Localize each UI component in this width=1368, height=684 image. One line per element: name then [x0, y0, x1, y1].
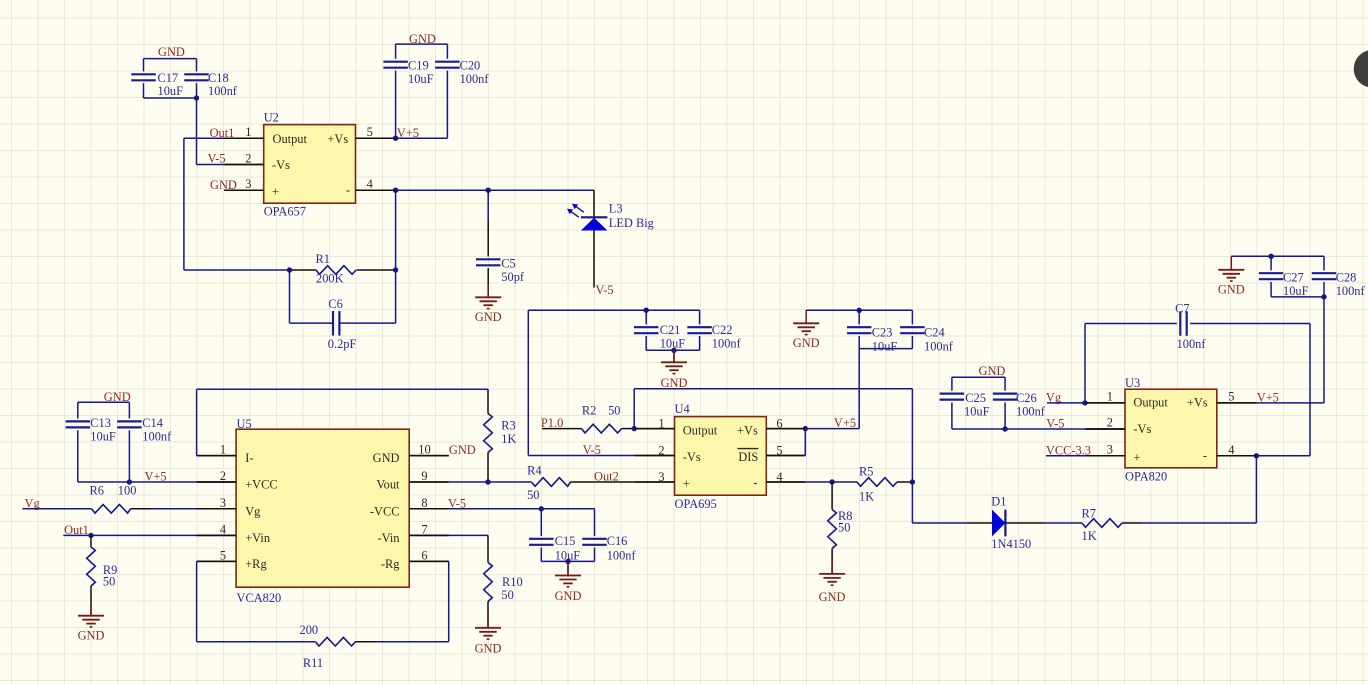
pin 6: [766, 428, 805, 430]
svg-text:C18: C18: [208, 71, 229, 85]
wire: [184, 138, 290, 270]
capacitor C7: [1085, 302, 1310, 403]
svg-text:GND: GND: [1218, 283, 1245, 297]
pin: [635, 481, 675, 483]
svg-text:+Rg: +Rg: [245, 557, 266, 571]
svg-text:5: 5: [1228, 389, 1234, 403]
resistor R4: [527, 464, 634, 503]
svg-text:U3: U3: [1125, 376, 1140, 390]
svg-text:R10: R10: [502, 575, 523, 589]
op-amp U5: [197, 417, 449, 605]
svg-text:1K: 1K: [859, 489, 874, 503]
svg-text:V-5: V-5: [208, 151, 226, 165]
resistor R8: [828, 482, 853, 574]
svg-text:R6: R6: [90, 483, 104, 497]
pin: [766, 455, 805, 457]
svg-text:10uF: 10uF: [90, 430, 116, 444]
svg-text:+: +: [683, 477, 690, 491]
svg-text:10uF: 10uF: [872, 340, 898, 354]
pin 5: [356, 137, 396, 139]
svg-text:V+5: V+5: [145, 470, 167, 484]
svg-text:D1: D1: [991, 494, 1006, 508]
svg-text:200K: 200K: [316, 272, 344, 286]
pin: [409, 534, 449, 536]
svg-text:4: 4: [220, 522, 226, 536]
wire: [1271, 294, 1327, 299]
node V-5: [583, 443, 601, 457]
svg-text:50: 50: [608, 404, 620, 418]
pin: [1086, 402, 1126, 404]
resistor R1: [290, 252, 396, 286]
svg-text:GND: GND: [78, 629, 105, 643]
wire: [197, 561, 316, 641]
svg-text:-Vs: -Vs: [272, 158, 290, 172]
wire: [1231, 255, 1324, 257]
svg-text:OPA695: OPA695: [675, 497, 717, 511]
wire: [396, 188, 594, 193]
svg-text:100nf: 100nf: [208, 84, 238, 98]
svg-text:100nf: 100nf: [924, 340, 954, 354]
pin: [224, 164, 264, 166]
node GND: [104, 390, 131, 404]
pin: [409, 481, 449, 483]
svg-text:V+5: V+5: [397, 126, 419, 140]
svg-text:GND: GND: [373, 451, 400, 465]
wire: [805, 479, 857, 484]
svg-text:-Vs: -Vs: [1133, 422, 1151, 436]
svg-text:+VCC: +VCC: [245, 478, 277, 492]
node GND: [210, 178, 237, 192]
svg-text:GND: GND: [819, 590, 846, 604]
svg-text:+Vs: +Vs: [1187, 396, 1208, 410]
svg-text:0.2pF: 0.2pF: [328, 337, 357, 351]
wire: [1254, 324, 1310, 459]
svg-text:R3: R3: [501, 419, 515, 433]
svg-text:50: 50: [838, 520, 850, 534]
svg-text:Output: Output: [683, 424, 718, 438]
capacitor C25: [940, 391, 990, 419]
svg-text:GND: GND: [979, 364, 1006, 378]
svg-text:C21: C21: [660, 323, 681, 337]
pin: [197, 508, 237, 510]
pin 2: [1086, 428, 1126, 430]
svg-text:50pf: 50pf: [501, 270, 525, 284]
svg-text:10uF: 10uF: [1283, 284, 1309, 298]
svg-text:GND: GND: [475, 310, 502, 324]
svg-text:+Vin: +Vin: [245, 531, 270, 545]
svg-text:-VCC: -VCC: [370, 504, 400, 518]
svg-text:C24: C24: [924, 326, 945, 340]
node GND: [158, 45, 185, 59]
svg-text:OPA820: OPA820: [1125, 469, 1167, 483]
node VCC-3.3: [1046, 443, 1091, 457]
pin: [224, 137, 264, 139]
pin: [197, 508, 237, 510]
capacitor C24: [900, 310, 954, 353]
resistor R3: [484, 389, 517, 482]
svg-text:C14: C14: [142, 416, 163, 430]
pin 5: [1217, 402, 1257, 404]
svg-text:R1: R1: [316, 252, 330, 266]
wire: [632, 389, 913, 523]
svg-text:GND: GND: [475, 642, 502, 656]
pin 3: [634, 481, 674, 483]
svg-text:2: 2: [1107, 416, 1113, 430]
node V-5: [596, 283, 614, 297]
svg-text:U4: U4: [675, 402, 690, 416]
node Vg: [1046, 390, 1088, 405]
ground: [555, 562, 582, 603]
svg-text:C27: C27: [1283, 271, 1304, 285]
capacitor C19: [383, 59, 433, 86]
svg-text:8: 8: [421, 496, 427, 510]
pin: [409, 455, 449, 457]
capacitor C26: [993, 391, 1046, 419]
wire: [393, 188, 398, 271]
capacitor C15: [529, 509, 580, 563]
capacitor C13: [66, 416, 116, 443]
node V+5: [127, 470, 236, 485]
svg-text:VCA820: VCA820: [237, 591, 282, 605]
capacitor C28: [1312, 256, 1366, 298]
svg-text:9: 9: [421, 469, 427, 483]
svg-text:3: 3: [220, 496, 226, 510]
svg-text:100nf: 100nf: [1336, 284, 1366, 298]
svg-text:C16: C16: [607, 534, 628, 548]
svg-text:C6: C6: [328, 297, 342, 311]
resistor R11: [300, 623, 449, 670]
node B: [910, 479, 915, 484]
svg-text:2: 2: [220, 469, 226, 483]
LED L3: [567, 202, 654, 288]
op-amp U4: [634, 402, 805, 511]
resistor R7: [1082, 506, 1257, 543]
capacitor C17: [131, 71, 183, 98]
svg-text:Vout: Vout: [376, 478, 400, 492]
svg-text:-Vin: -Vin: [378, 531, 400, 545]
node Out1: [63, 523, 236, 538]
wire: [449, 479, 532, 484]
pin: [766, 428, 805, 430]
ground: [1218, 256, 1245, 296]
node Out2: [594, 469, 619, 483]
node GND: [979, 364, 1006, 378]
pin: [409, 481, 449, 483]
pin: [197, 455, 237, 457]
capacitor C5: [476, 190, 525, 297]
wire: [952, 377, 1005, 429]
svg-text:4: 4: [1228, 443, 1234, 457]
svg-text:+Vs: +Vs: [327, 132, 348, 146]
resistor R9: [87, 535, 118, 615]
capacitor C27: [1259, 254, 1309, 298]
wire: [804, 429, 806, 456]
pin: [197, 481, 237, 483]
capacitor C18: [184, 71, 238, 98]
wire: [144, 59, 197, 98]
ground: [661, 349, 688, 390]
svg-text:100nf: 100nf: [1016, 405, 1046, 419]
svg-text:GND: GND: [449, 443, 476, 457]
resistor R2: [582, 404, 635, 433]
pin 3: [1086, 455, 1126, 457]
wire: [528, 310, 699, 455]
svg-text:50: 50: [501, 588, 513, 602]
svg-text:R7: R7: [1082, 506, 1096, 520]
svg-text:LED Big: LED Big: [609, 216, 654, 230]
svg-text:OPA657: OPA657: [264, 205, 306, 219]
ground: [475, 614, 502, 655]
svg-text:C7: C7: [1175, 302, 1189, 316]
ground: [475, 284, 502, 324]
pin: [766, 481, 805, 483]
pin 5: [766, 455, 805, 457]
svg-text:V-5: V-5: [596, 283, 614, 297]
svg-text:GND: GND: [793, 336, 820, 350]
node GND: [409, 32, 436, 46]
svg-text:10uF: 10uF: [158, 84, 184, 98]
pin 3: [224, 189, 264, 191]
wire: [858, 349, 860, 429]
node V-5: [208, 151, 226, 165]
pin: [635, 455, 675, 457]
wire: [806, 309, 912, 311]
pin: [1217, 402, 1257, 404]
wire: [912, 522, 965, 524]
svg-text:1: 1: [220, 443, 226, 457]
pin 2: [224, 164, 264, 166]
svg-text:100nf: 100nf: [142, 430, 172, 444]
svg-text:4: 4: [367, 177, 373, 191]
pin: [197, 534, 237, 536]
svg-text:+: +: [1133, 450, 1140, 464]
svg-text:-Rg: -Rg: [381, 557, 400, 571]
svg-text:50: 50: [527, 488, 539, 502]
svg-text:I-: I-: [245, 451, 253, 465]
svg-text:C22: C22: [712, 323, 733, 337]
svg-text:C13: C13: [90, 416, 111, 430]
svg-text:5: 5: [367, 125, 373, 139]
pin: [197, 481, 237, 483]
svg-text:100nf: 100nf: [712, 337, 742, 351]
pin: [197, 560, 237, 562]
pin: [356, 137, 396, 139]
svg-text:100nf: 100nf: [460, 72, 490, 86]
svg-text:V-5: V-5: [583, 443, 601, 457]
svg-text:C19: C19: [408, 59, 429, 73]
svg-text:2: 2: [245, 152, 251, 166]
pin 1: [224, 137, 264, 139]
svg-text:1K: 1K: [1082, 529, 1097, 543]
ground: [819, 560, 846, 604]
pin 4: [1217, 455, 1257, 457]
svg-text:10: 10: [418, 443, 430, 457]
pin: [409, 560, 449, 562]
pin 1: [634, 428, 674, 430]
svg-text:6: 6: [421, 548, 427, 562]
node V+5: [803, 416, 860, 431]
node A: [287, 267, 399, 272]
pin: [356, 189, 396, 191]
ground: [793, 310, 820, 350]
svg-text:1K: 1K: [501, 432, 516, 446]
svg-text:R11: R11: [303, 656, 323, 670]
capacitor C23: [847, 308, 897, 354]
svg-text:C20: C20: [460, 59, 481, 73]
svg-text:R5: R5: [859, 465, 873, 479]
wire: [646, 348, 699, 363]
capacitor C14: [117, 416, 172, 443]
pin 4: [766, 481, 805, 483]
pin: [409, 508, 449, 510]
capacitor C22: [687, 310, 741, 350]
svg-text:GND: GND: [104, 390, 131, 404]
wire: [78, 402, 130, 482]
svg-text:C17: C17: [158, 71, 179, 85]
capacitor C16: [582, 509, 636, 563]
svg-text:-Vs: -Vs: [683, 450, 701, 464]
capacitor C21: [634, 308, 685, 351]
op-amp U2: [224, 111, 395, 219]
resistor R5: [857, 465, 912, 504]
node C: [1354, 50, 1368, 88]
svg-text:1N4150: 1N4150: [991, 537, 1031, 551]
node V+5: [1256, 297, 1324, 405]
wire: [541, 559, 594, 576]
svg-text:V-5: V-5: [1046, 417, 1064, 431]
svg-text:-: -: [346, 183, 350, 197]
resistor R10: [484, 563, 523, 628]
svg-text:DIS: DIS: [738, 450, 758, 464]
pin: [1217, 455, 1257, 457]
svg-text:U5: U5: [237, 417, 252, 431]
svg-text:100nf: 100nf: [607, 549, 637, 563]
capacitor C6: [290, 270, 396, 351]
svg-text:1: 1: [1107, 389, 1113, 403]
svg-text:3: 3: [245, 177, 251, 191]
svg-text:7: 7: [421, 522, 427, 536]
wire: [859, 348, 912, 350]
node P1.0: [541, 416, 582, 430]
svg-text:1: 1: [245, 125, 251, 139]
svg-text:GND: GND: [158, 45, 185, 59]
svg-text:GND: GND: [409, 32, 436, 46]
svg-text:50: 50: [103, 574, 115, 588]
wire: [1255, 456, 1257, 523]
svg-text:U2: U2: [264, 111, 279, 125]
wire: [409, 535, 488, 562]
node V-5: [1046, 417, 1064, 431]
svg-text:Output: Output: [273, 132, 308, 146]
svg-text:GND: GND: [661, 376, 688, 390]
wire: [448, 561, 450, 641]
svg-text:10uF: 10uF: [408, 72, 434, 86]
pin: [1086, 428, 1126, 430]
svg-text:C23: C23: [872, 326, 893, 340]
pin: [197, 534, 237, 536]
pin: [409, 508, 449, 510]
resistor R6: [90, 483, 237, 513]
diode D1: [966, 494, 1045, 551]
op-amp U3: [1086, 376, 1257, 483]
svg-text:C5: C5: [501, 257, 515, 271]
node Out1: [184, 126, 234, 140]
capacitor C20: [435, 59, 489, 86]
svg-text:200: 200: [300, 623, 319, 637]
pin: [409, 560, 449, 562]
svg-text:R4: R4: [527, 464, 541, 478]
svg-text:100nf: 100nf: [1177, 337, 1207, 351]
svg-text:3: 3: [1107, 442, 1113, 456]
pin: [409, 534, 449, 536]
svg-text:C15: C15: [555, 534, 576, 548]
wire: [396, 44, 448, 138]
pin: [409, 455, 449, 457]
pin 4: [356, 189, 396, 191]
node GND: [449, 443, 476, 457]
svg-text:Vg: Vg: [245, 504, 260, 518]
ground: [78, 602, 105, 642]
svg-text:C26: C26: [1016, 391, 1037, 405]
svg-text:5: 5: [220, 548, 226, 562]
svg-text:C25: C25: [965, 391, 986, 405]
pin: [197, 560, 237, 562]
node Vg: [22, 496, 91, 510]
svg-text:Output: Output: [1133, 396, 1168, 410]
node V-5: [448, 496, 595, 511]
pin: [635, 428, 675, 430]
wire: [1045, 522, 1082, 524]
pin: [1086, 455, 1126, 457]
wire: [593, 190, 595, 217]
svg-text:10uF: 10uF: [964, 405, 990, 419]
svg-text:-: -: [1203, 449, 1207, 463]
pin 1: [1086, 402, 1126, 404]
pin: [224, 189, 264, 191]
node V+5: [393, 126, 419, 141]
svg-text:-: -: [753, 476, 757, 490]
svg-text:+: +: [272, 184, 279, 198]
svg-text:R2: R2: [582, 404, 596, 418]
svg-text:C28: C28: [1336, 271, 1357, 285]
svg-text:GND: GND: [555, 589, 582, 603]
pin 2: [634, 455, 674, 457]
svg-text:100: 100: [118, 483, 137, 497]
svg-text:+Vs: +Vs: [737, 424, 758, 438]
svg-text:L3: L3: [609, 202, 623, 216]
pin: [197, 455, 237, 457]
wire: [197, 389, 488, 455]
wire: [194, 95, 224, 164]
wire: [952, 426, 1125, 431]
